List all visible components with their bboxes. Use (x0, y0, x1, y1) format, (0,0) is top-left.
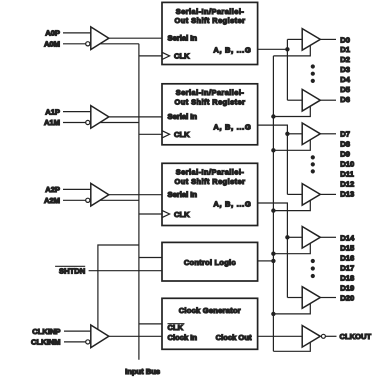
svg-text:D14: D14 (340, 234, 355, 243)
output buffer D7 (302, 123, 320, 145)
junction dot control logic output (271, 259, 275, 263)
bubble U2 inverting input (86, 120, 90, 124)
wire A1M line to input bus (passes under buffer U2) (63, 122, 139, 124)
junction dot enable D14 (271, 252, 275, 256)
svg-text:A, B, ...G: A, B, ...G (213, 199, 251, 208)
wire junction vertical group 2 (286, 134, 288, 195)
junction dot enable D20 (271, 312, 275, 316)
svg-text:D9: D9 (340, 150, 350, 159)
svg-text:D6: D6 (340, 95, 350, 104)
junction dot enable D7 (271, 148, 275, 152)
svg-text:Clock In: Clock In (168, 333, 198, 342)
wire junction vertical group 1 (286, 39, 288, 100)
output buffer D0 (302, 29, 320, 51)
wire CLK tap to register 3 (139, 213, 162, 215)
wire enable bus (vertical) (272, 56, 274, 351)
svg-text:Out Shift Register: Out Shift Register (175, 16, 246, 25)
wire A2M line to input bus (passes under buffer U3) (63, 199, 139, 201)
svg-text:D20: D20 (340, 293, 354, 302)
svg-text:D1: D1 (340, 45, 350, 54)
svg-text:D18: D18 (340, 273, 354, 282)
wire to D14 buffer input (287, 236, 302, 238)
wire to D0 buffer input (287, 38, 302, 40)
wire junction vertical group 3 (286, 237, 288, 297)
wire D13 output (320, 193, 336, 195)
junction dot group 3 (285, 235, 289, 239)
svg-text:A2M: A2M (44, 196, 60, 205)
svg-text:D8: D8 (340, 140, 350, 149)
svg-text:A0P: A0P (45, 29, 60, 38)
wire serial-in 0 (U1 output to register 1) (109, 37, 162, 39)
svg-text:Serial-In/Parallel-: Serial-In/Parallel- (176, 168, 245, 177)
svg-text:Clock Generator: Clock Generator (179, 306, 241, 315)
wire to D20 buffer input (287, 297, 302, 299)
svg-text:Control Logic: Control Logic (184, 258, 236, 267)
input buffer U3 (91, 183, 109, 206)
clock generator box (162, 298, 258, 349)
wire bus tap to control logic (139, 257, 162, 259)
wire register 1 output to junction (258, 48, 288, 50)
svg-text:Serial In: Serial In (168, 190, 198, 199)
bubble CLKOUT buffer (321, 334, 325, 338)
wire CLK tap to register 2 (139, 133, 162, 135)
svg-text:Input Bus: Input Bus (125, 367, 160, 376)
bubble U1 inverting input (86, 42, 90, 46)
wire register 2 output to junction (258, 125, 288, 134)
svg-text:CLK: CLK (174, 130, 190, 139)
svg-text:D15: D15 (340, 244, 355, 253)
shift register box 2 (162, 84, 258, 145)
output buffer D13 (302, 184, 320, 206)
svg-text:CLKINM: CLKINM (31, 338, 61, 347)
ellipsis dots group 1 (311, 64, 315, 68)
wire CLKINM line (64, 341, 86, 343)
wire enable branch D0 buffer (273, 45, 310, 56)
wire A1P line (63, 111, 91, 113)
svg-text:D10: D10 (340, 160, 354, 169)
wire input bus (vertical) (138, 44, 140, 360)
wire serial-in 1 (U2 output to register 2) (109, 116, 162, 118)
junction dot group 2 (285, 132, 289, 136)
wire enable branch D7 buffer (273, 140, 310, 151)
wire control logic output to enable bus (258, 260, 274, 262)
junction dot enable D6 (271, 114, 275, 118)
svg-text:D11: D11 (340, 169, 354, 178)
wire CLKOUT output (325, 335, 336, 337)
ellipsis dots group 3 (311, 259, 315, 263)
pin clock wedge register 2 (162, 131, 170, 138)
wire clock buffer output to Clock In (crosses input bus) (109, 335, 162, 337)
svg-text:D3: D3 (340, 65, 350, 74)
wire A0M line to input bus (passes under buffer U1) (63, 43, 139, 45)
input buffer U2 (91, 106, 109, 129)
pin clock wedge register 3 (162, 210, 170, 217)
junction dot group 1 (285, 47, 289, 51)
pin clock wedge register 1 (162, 52, 170, 59)
bubble U3 inverting input (86, 198, 90, 202)
wire enable branch D14 buffer (273, 243, 310, 253)
wire to D13 buffer input (287, 193, 302, 195)
svg-text:Out Shift Register: Out Shift Register (175, 97, 246, 106)
svg-text:CLK: CLK (174, 210, 190, 219)
svg-text:D0: D0 (340, 35, 350, 44)
output buffer CLKOUT (inverting) (302, 326, 320, 348)
wire enable branch D6 buffer (273, 106, 310, 116)
wire enable branch CLKOUT buffer (273, 342, 310, 351)
svg-text:D13: D13 (340, 189, 354, 198)
svg-text:D16: D16 (340, 254, 354, 263)
wire register 3 output to junction (258, 203, 288, 237)
svg-text:D19: D19 (340, 283, 354, 292)
shift register box 3 (162, 163, 258, 225)
svg-text:CLK: CLK (174, 52, 190, 61)
wire A0P line (63, 32, 91, 34)
wire D0 output (320, 38, 336, 40)
svg-text:D12: D12 (340, 179, 354, 188)
wire to D7 buffer input (287, 133, 302, 135)
output buffer D6 (302, 89, 320, 111)
svg-text:Out Shift Register: Out Shift Register (175, 177, 246, 186)
wire clock out to CLKOUT buffer (crosses enable bus) (258, 335, 303, 337)
wire D20 output (320, 297, 336, 299)
wire A2P line (63, 188, 91, 190)
wire enable branch D20 buffer (273, 304, 310, 314)
svg-text:CLKOUT: CLKOUT (340, 332, 372, 341)
svg-text:D7: D7 (340, 130, 350, 139)
ellipsis dots group 2 (311, 155, 315, 159)
wire CLK tap to register 1 (139, 55, 162, 57)
wire to D6 buffer input (287, 99, 302, 101)
wire D14 output (320, 236, 336, 238)
wire serial-in 2 (U3 output to register 3) (109, 194, 162, 196)
wire clock feed up from buffer to input bus (98, 245, 139, 331)
wire D6 output (320, 99, 336, 101)
wire enable branch D13 buffer (273, 200, 310, 210)
svg-text:A, B, ...G: A, B, ...G (213, 46, 251, 55)
svg-text:A1P: A1P (45, 107, 60, 116)
svg-text:Serial-In/Parallel-: Serial-In/Parallel- (176, 7, 245, 16)
output buffer D20 (302, 287, 320, 309)
svg-text:A0M: A0M (44, 40, 60, 49)
svg-text:A1M: A1M (44, 118, 60, 127)
junction dot enable D13 (271, 208, 275, 212)
wire bus tap to clock generator CLK (139, 323, 162, 325)
svg-text:Serial-In/Parallel-: Serial-In/Parallel- (176, 88, 245, 97)
wire CLKINP line (64, 330, 91, 332)
bubble U4 inverting input (86, 340, 90, 344)
control logic box (162, 242, 258, 281)
input buffer U4 (clock) (91, 325, 109, 348)
svg-text:Clock Out: Clock Out (216, 333, 252, 342)
output buffer D14 (302, 227, 320, 249)
wire SHTDN to control logic (89, 270, 162, 272)
svg-text:Serial In: Serial In (168, 33, 198, 42)
svg-text:D4: D4 (340, 75, 350, 84)
shift register box 1 (162, 2, 258, 64)
input buffer U1 (91, 27, 109, 50)
svg-text:CLK: CLK (168, 323, 184, 332)
svg-text:D17: D17 (340, 264, 354, 273)
svg-text:A, B, ...G: A, B, ...G (213, 123, 251, 132)
svg-text:Serial In: Serial In (168, 112, 198, 121)
svg-text:CLKINP: CLKINP (32, 327, 60, 336)
svg-text:D5: D5 (340, 85, 350, 94)
svg-text:SHTDN: SHTDN (59, 267, 85, 276)
svg-text:A2P: A2P (45, 185, 60, 194)
svg-text:D2: D2 (340, 55, 350, 64)
wire D7 output (320, 133, 336, 135)
